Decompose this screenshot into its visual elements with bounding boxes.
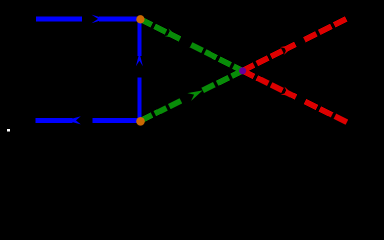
- arrow on vertical line (points up): [136, 53, 143, 67]
- intermediate line lower (green dashed), arrow to crossing: [203, 71, 243, 91]
- incoming scalar line bottom (blue dashed): [36, 118, 141, 123]
- arrow on lower red line (points down-right): [281, 87, 298, 101]
- vertex V2 bottom (orange dot): [136, 117, 145, 126]
- arrow on bottom line (points left): [66, 116, 81, 124]
- outgoing line lower (red dashed), arrow to end: [305, 102, 348, 123]
- arrow on top line (points right): [92, 15, 106, 24]
- intermediate line lower (green dashed), vertex to arrow: [141, 101, 181, 121]
- outgoing line upper (red dashed), arrow to end: [304, 18, 347, 40]
- arrow on upper red line (points up-right): [280, 40, 297, 54]
- small white mark bottom-left: [7, 129, 10, 131]
- intermediate line upper (green dashed), vertex to arrow: [140, 19, 180, 39]
- vertex V3 crossing (purple dot): [239, 67, 246, 74]
- intermediate line upper (green dashed), arrow to crossing: [191, 45, 243, 71]
- exchange propagator vertical (blue dashed): [138, 21, 142, 119]
- outgoing line lower (red dashed), crossing to arrow: [243, 71, 296, 97]
- vertex V1 top (orange dot): [136, 15, 144, 23]
- incoming scalar line top (blue dashed): [36, 16, 140, 21]
- arrow on lower green line (points up-right): [187, 87, 204, 101]
- arrow on upper green line (points down-right): [165, 28, 182, 42]
- outgoing line upper (red dashed), crossing to arrow: [243, 44, 296, 71]
